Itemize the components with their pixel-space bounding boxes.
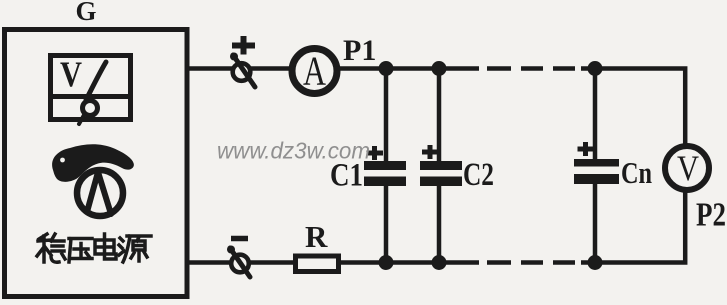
wire: top rail to right corner and down to voltmeter: [595, 69, 685, 147]
svg-text:V: V: [677, 148, 699, 188]
junction node bottom of Cn: [588, 255, 603, 270]
char 源: [119, 236, 151, 262]
char 压: [69, 239, 92, 263]
plus sign at + terminal: [232, 36, 255, 55]
wire: terminal to resistor R: [250, 260, 295, 265]
ammeter A: [292, 48, 337, 94]
capacitor C2 branch wires: [437, 69, 442, 263]
adjustment knob blob: [52, 144, 134, 182]
junction node bottom of C1: [379, 255, 394, 270]
junction node bottom of C2: [432, 255, 447, 270]
svg-text:Cn: Cn: [621, 155, 652, 190]
knob dial circle with pointer: [77, 170, 123, 216]
binding post terminal - (circle with slash): [227, 246, 250, 278]
capacitor C1 branch wires: [384, 69, 389, 263]
junction node P1 top of C1: [379, 61, 394, 76]
svg-text:www.dz3w.com: www.dz3w.com: [217, 138, 370, 164]
svg-text:G: G: [75, 0, 96, 26]
svg-text:P2: P2: [696, 197, 726, 234]
svg-text:V: V: [60, 54, 82, 94]
capacitor C2 polarity plus: [422, 145, 439, 159]
capacitor Cn plates: [574, 159, 619, 184]
minus sign at - terminal: [231, 236, 248, 242]
power supply box G (regulated supply enclosure): [5, 30, 188, 297]
wire: voltmeter bottom to bottom rail corner: [595, 190, 685, 263]
wire: resistor to dashed section (bottom rail): [341, 260, 479, 265]
resistor R: [296, 256, 339, 272]
capacitor C1 polarity plus: [367, 146, 384, 160]
capacitor C2 plates: [420, 161, 462, 186]
capacitor Cn branch wires: [593, 69, 598, 263]
text 稳压电源 (hand drawn strokes): [37, 234, 151, 262]
binding post terminal + (circle with slash): [230, 53, 255, 88]
panel meter needle tail: [79, 115, 84, 124]
dashed wire bottom rail: [487, 260, 589, 265]
panel meter pivot: [83, 101, 98, 116]
wire: terminal to ammeter: [251, 66, 294, 71]
panel meter face inside supply: [50, 56, 131, 120]
wire: bottom rail from supply to - terminal: [187, 260, 231, 265]
capacitor C1 plates: [364, 161, 406, 186]
wire: top rail from supply to + terminal: [187, 66, 232, 71]
svg-text:C2: C2: [463, 157, 494, 193]
voltmeter V: [665, 146, 709, 190]
char 稳: [37, 234, 65, 262]
dashed wire top rail: [487, 66, 589, 71]
wire: ammeter to dashed section (top rail): [336, 66, 479, 71]
junction node top of C2: [432, 61, 447, 76]
char 电: [95, 234, 116, 259]
panel meter needle: [86, 62, 106, 100]
svg-text:P1: P1: [343, 34, 376, 67]
capacitor Cn polarity plus: [578, 142, 595, 156]
junction node top of Cn: [588, 61, 603, 76]
svg-text:A: A: [303, 48, 326, 94]
svg-text:R: R: [305, 219, 328, 254]
